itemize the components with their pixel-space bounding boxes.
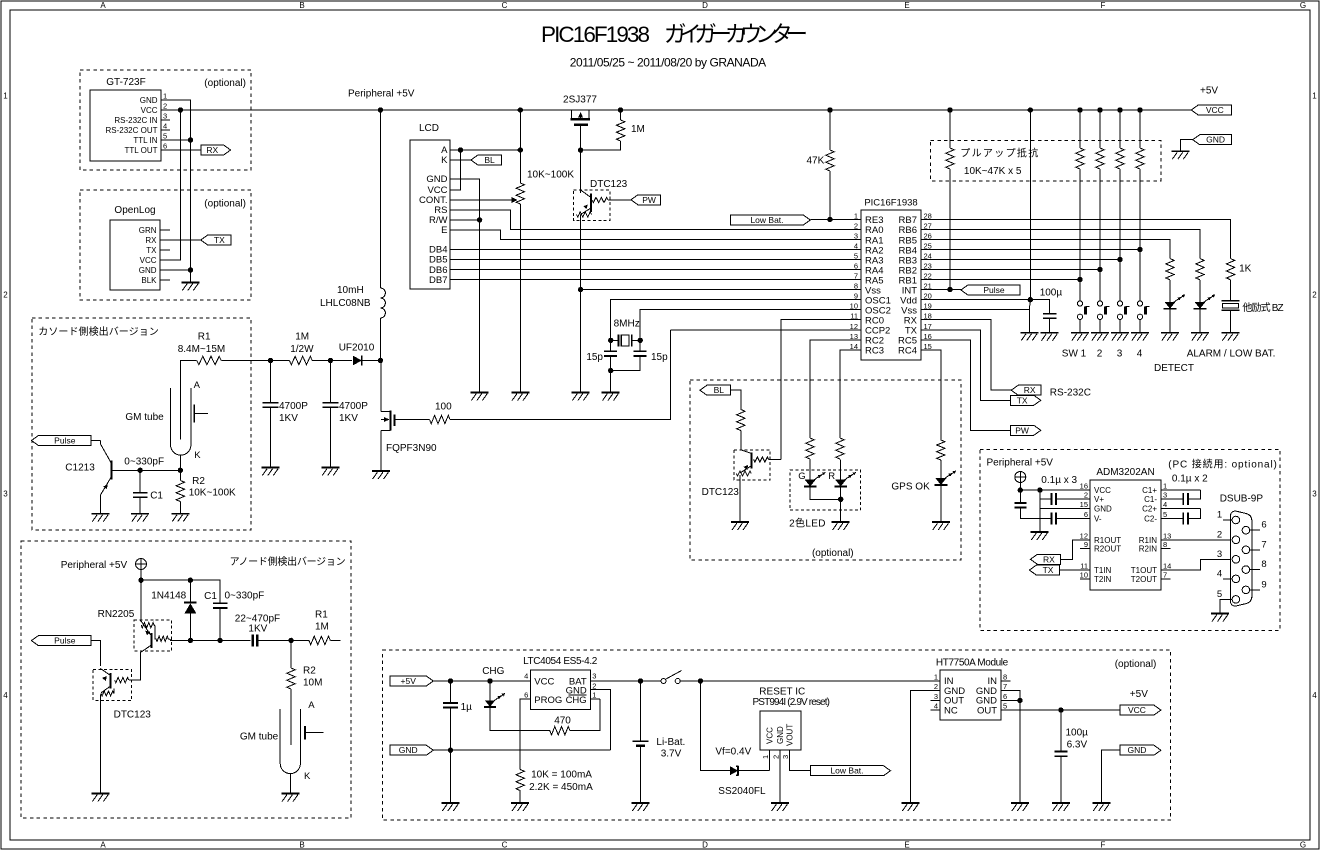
svg-text:3: 3 (163, 112, 167, 121)
svg-text:DETECT: DETECT (1154, 363, 1194, 374)
wire DTC123 base to RC0 (770, 459, 781, 461)
svg-text:K: K (194, 450, 201, 461)
svg-text:4: 4 (854, 242, 858, 251)
svg-text:2011/05/25 ~ 2011/08/20 by GRA: 2011/05/25 ~ 2011/08/20 by GRANADA (570, 56, 766, 70)
svg-text:(optional): (optional) (204, 199, 246, 210)
svg-text:4: 4 (163, 122, 167, 131)
svg-text:RS-232C IN: RS-232C IN (114, 116, 157, 125)
signal flag Low Bat. (to RE3) (731, 215, 811, 225)
svg-text:100: 100 (435, 402, 452, 413)
wire RE3 pin1 (810, 218, 861, 220)
ground (GND flag) (1172, 150, 1190, 152)
wire ADM VCC pin16 (1020, 489, 1090, 491)
ground buzzer (1222, 332, 1240, 334)
svg-text:A: A (100, 840, 106, 849)
wire RX pin18 (921, 320, 1011, 391)
svg-text:TTL OUT: TTL OUT (124, 146, 157, 155)
svg-text:F: F (1101, 840, 1106, 849)
wire PST994I pin1 VCC (769, 750, 771, 771)
svg-text:CHG: CHG (566, 695, 587, 706)
ground HT7750 GND (902, 802, 920, 804)
svg-text:(optional): (optional) (812, 548, 854, 559)
svg-text:VCC: VCC (534, 676, 554, 687)
svg-text:10K~47K x 5: 10K~47K x 5 (964, 166, 1022, 177)
junction diode node (188, 638, 193, 643)
svg-text:6: 6 (1084, 510, 1088, 519)
svg-text:RN2205: RN2205 (98, 609, 135, 620)
wire HT7750 pin4 stub (931, 709, 941, 711)
LED LOW BAT no2 (1194, 302, 1205, 309)
svg-text:8.4M~15M: 8.4M~15M (178, 344, 226, 355)
wire GT-723F pin6 TTL OUT to RX (161, 149, 201, 151)
svg-text:TX: TX (1017, 395, 1028, 405)
svg-text:1M: 1M (295, 332, 309, 343)
wire LCD DB5 to PIC RA3 (450, 259, 861, 261)
ground Vss pin19 (1020, 332, 1038, 334)
power flag VCC (1191, 105, 1231, 115)
svg-text:100µ: 100µ (1066, 728, 1089, 739)
svg-text:1: 1 (761, 755, 770, 759)
wire +5V rail (161, 109, 1191, 111)
wire LCD E to PIC RA1 (450, 230, 861, 240)
svg-text:10mH: 10mH (337, 285, 364, 296)
svg-text:100µ: 100µ (1040, 288, 1063, 299)
svg-text:R1: R1 (198, 332, 211, 343)
wire T1OUT to DSUB 3 (1161, 559, 1231, 570)
svg-text:A: A (194, 380, 201, 391)
signal flag TX (ADM) (1029, 565, 1059, 575)
ground PST994I (771, 802, 789, 804)
wire OpenLog RX to TX flag (160, 239, 201, 241)
svg-text:VCC: VCC (140, 256, 157, 265)
power supply optional enclosure (382, 650, 1170, 820)
inductor 10mH LHLC08NB (379, 110, 381, 288)
signal flag Low Bat. (from reset IC) (811, 766, 891, 776)
wire R2IN stub (1161, 548, 1171, 550)
svg-text:GND: GND (1094, 505, 1112, 514)
signal flag BL (LED box) (700, 385, 731, 395)
svg-text:3: 3 (934, 692, 938, 701)
wire DSUB 5 to ground (1220, 599, 1232, 613)
svg-text:1N4148: 1N4148 (151, 591, 186, 602)
wire RB7 pin28 to buzzer (921, 219, 1231, 258)
svg-text:GRN: GRN (139, 226, 157, 235)
wire RB3 pin24 to SW3 (921, 259, 1120, 261)
ground 4700P no1 (262, 467, 280, 469)
ground C1 (131, 513, 149, 515)
wire switch to HT7750 IN (680, 680, 940, 682)
ground Vss (572, 392, 590, 394)
signal flag RX (RS-232C) (1011, 385, 1041, 395)
svg-text:10: 10 (1080, 570, 1088, 579)
svg-text:5: 5 (1163, 510, 1167, 519)
svg-text:ADM3202AN: ADM3202AN (1096, 467, 1154, 478)
wire OpenLog TX stub (160, 249, 170, 251)
svg-text:1KV: 1KV (339, 413, 358, 424)
ground 100u (1041, 332, 1059, 334)
svg-text:4: 4 (524, 672, 528, 681)
svg-text:R1: R1 (315, 610, 328, 621)
wire CCP2 pin12 (671, 329, 862, 331)
svg-text:3: 3 (1217, 549, 1222, 560)
svg-text:6: 6 (1261, 520, 1266, 531)
svg-text:E: E (904, 1, 909, 10)
wire Vdd to rail (1029, 110, 1031, 300)
ground GND flag output (1092, 802, 1110, 804)
svg-text:6: 6 (524, 691, 528, 700)
svg-text:16: 16 (1080, 482, 1088, 491)
svg-text:5: 5 (854, 252, 858, 261)
ground DTC123 emitter (92, 793, 110, 795)
wire GND flag output (1101, 750, 1120, 803)
wire R1 left to GM tube anode (180, 361, 196, 440)
svg-text:D: D (702, 840, 708, 849)
ground battery (632, 802, 650, 804)
svg-text:2色LED: 2色LED (789, 517, 825, 530)
svg-text:VCC: VCC (766, 727, 775, 744)
resistor PROG 10K/2.2K (516, 770, 524, 791)
capacitor 0.1u C1 (1161, 489, 1201, 491)
switch SW2 (1097, 301, 1102, 306)
ground PROG resistor (511, 802, 529, 804)
svg-text:GND: GND (1128, 745, 1147, 755)
junction 100u output cap (1058, 707, 1063, 712)
svg-text:TX: TX (146, 246, 157, 255)
wire LCD K to BL (450, 159, 471, 161)
ground LED2 (1191, 332, 1209, 334)
junction C1 node (137, 468, 142, 473)
wire RB4 pin25 to SW4 (921, 249, 1140, 251)
svg-text:3: 3 (1163, 491, 1167, 500)
svg-text:DB7: DB7 (429, 275, 447, 286)
svg-text:(optional): (optional) (1115, 659, 1157, 670)
junction 4700P no2 (328, 358, 333, 363)
svg-text:0.1µ x 2: 0.1µ x 2 (1172, 474, 1208, 485)
svg-text:2: 2 (934, 682, 938, 691)
svg-text:R1IN: R1IN (1139, 536, 1157, 545)
svg-text:R2OUT: R2OUT (1094, 545, 1121, 554)
signal flag PW (631, 195, 660, 205)
svg-text:他励式 BZ: 他励式 BZ (1242, 301, 1283, 314)
ground ADM (1031, 531, 1049, 533)
ground LED1 (1161, 332, 1179, 334)
svg-text:RX: RX (1024, 385, 1036, 395)
junction Vdd node (1028, 297, 1033, 302)
svg-text:2: 2 (3, 291, 8, 300)
svg-text:Low Bat.: Low Bat. (830, 766, 863, 776)
svg-text:DTC123: DTC123 (590, 179, 628, 190)
svg-text:2: 2 (1084, 491, 1088, 500)
cathode-side detector enclosure (32, 318, 251, 530)
wire RC4 pin15 to GPS OK (921, 350, 941, 440)
svg-text:7: 7 (1163, 570, 1167, 579)
svg-text:0~330pF: 0~330pF (225, 591, 265, 602)
junction two-color LED cathode (838, 497, 843, 502)
wire +5V node to C1 (141, 580, 220, 603)
GT-723F module U2 (90, 90, 161, 161)
signal flag PW (from RC5) (1010, 425, 1041, 435)
svg-text:C: C (502, 840, 508, 849)
capacitor 4700P 1KV no2 (329, 361, 331, 403)
junction 4700P no1 (268, 358, 273, 363)
wire PROG pin6 (520, 699, 530, 770)
svg-text:1/2W: 1/2W (290, 344, 314, 355)
svg-text:9: 9 (1261, 579, 1266, 590)
svg-text:DTC123: DTC123 (114, 710, 152, 721)
OpenLog module U3 (110, 220, 160, 290)
anode-side detector enclosure (21, 541, 351, 818)
wire RN2205 base node (170, 639, 250, 641)
svg-text:BL: BL (714, 385, 725, 395)
junction dots on +5V rail (378, 107, 383, 112)
svg-text:GT-723F: GT-723F (106, 77, 145, 88)
wire cathode node (112, 469, 181, 471)
svg-text:GND: GND (776, 726, 785, 744)
wire GT-723F pin5 TTL IN (161, 139, 191, 141)
resistor GPS LED (937, 440, 945, 460)
wire ADM GND pin15 (1040, 508, 1090, 510)
svg-text:PST994I (2.9V reset): PST994I (2.9V reset) (753, 697, 831, 708)
svg-text:4700P: 4700P (279, 401, 308, 412)
junction CHG LED (487, 678, 492, 683)
signal flag Pulse (anode version) (31, 636, 91, 646)
svg-text:HT7750A Module: HT7750A Module (936, 658, 1009, 669)
wire Pulse to C1213 collector (91, 440, 100, 442)
svg-text:BL: BL (484, 155, 495, 165)
wire PST994I pin2 GND (779, 750, 781, 803)
svg-text:1: 1 (1217, 510, 1222, 521)
wire RB1 pin22 to SW1 (921, 279, 1080, 281)
svg-text:8: 8 (854, 282, 858, 291)
wire crystal ground (610, 371, 612, 393)
wire GND flag to ground (1181, 140, 1193, 151)
svg-text:K: K (441, 155, 448, 166)
wire RB6 pin27 to LED2 (921, 229, 1200, 258)
capacitor 0.1u V- (1040, 518, 1052, 520)
svg-text:C1+: C1+ (1142, 486, 1157, 495)
wire VCC branch down to OpenLog (160, 110, 180, 260)
power flag +5V (charger in) (390, 676, 433, 686)
svg-text:R2: R2 (303, 666, 316, 677)
svg-text:UF2010: UF2010 (339, 343, 375, 354)
junction GM tube cathode node (178, 468, 183, 473)
GM tube no2 (280, 709, 300, 774)
svg-text:6: 6 (854, 262, 858, 271)
signal flag Pulse (cathode version) (31, 436, 91, 446)
ground HT7750 output (1011, 802, 1029, 804)
wire LCD DB7 to PIC RA5 (450, 279, 861, 281)
wire Vss pin19 to ground (921, 310, 1029, 333)
potentiometer 10K~100K contrast (519, 110, 521, 183)
svg-text:VOUT: VOUT (786, 724, 795, 746)
svg-text:PIC16F1938: PIC16F1938 (541, 22, 650, 47)
two-color LED enclosure (790, 470, 861, 510)
svg-text:1KV: 1KV (248, 624, 267, 635)
LED R (835, 480, 846, 487)
svg-text:1M: 1M (315, 622, 329, 633)
svg-text:7: 7 (1261, 539, 1266, 550)
wire OSC2 to crystal (640, 310, 861, 341)
wire R1 to 1M (221, 360, 289, 362)
wire LCD GND down to ground (450, 179, 480, 393)
svg-text:Peripheral +5V: Peripheral +5V (61, 560, 128, 571)
svg-text:0.1µ x 3: 0.1µ x 3 (1041, 475, 1077, 486)
svg-text:E: E (441, 225, 447, 236)
wire OpenLog GRN stub (160, 229, 170, 231)
svg-text:D: D (702, 1, 708, 10)
resistor 1M gate pull-up (620, 110, 622, 120)
signal flag TX (RS-232C) (1011, 395, 1041, 405)
wire 1M to UF2010 (312, 360, 352, 362)
wire OpenLog BLK stub (160, 279, 170, 281)
svg-text:1M: 1M (631, 124, 645, 135)
svg-text:Li-Bat.: Li-Bat. (656, 737, 685, 748)
svg-text:RS-232C OUT: RS-232C OUT (105, 126, 157, 135)
LCD module (410, 140, 450, 289)
transistor DTC123 (power control) Q2 (574, 190, 611, 220)
svg-text:GND: GND (1206, 135, 1225, 145)
junction 15p ground node (608, 368, 613, 373)
signal flag BL (backlight) (471, 155, 501, 165)
svg-text:Pulse: Pulse (983, 285, 1005, 295)
wire OSC1 to crystal (611, 300, 861, 341)
svg-text:LCD: LCD (419, 123, 439, 134)
svg-text:13: 13 (1163, 531, 1171, 540)
svg-text:TTL IN: TTL IN (133, 136, 157, 145)
IC LTC4054 U5 (530, 670, 590, 710)
junction 47K on RE3 (827, 217, 832, 222)
wire LCD VCC branch (450, 150, 461, 190)
svg-text:2: 2 (1217, 529, 1222, 540)
svg-text:C2-: C2- (1144, 515, 1157, 524)
svg-text:Vf=0.4V: Vf=0.4V (715, 747, 751, 758)
svg-text:3: 3 (781, 755, 790, 759)
svg-text:4: 4 (1217, 568, 1222, 579)
junction battery + (638, 678, 643, 683)
svg-text:F: F (1101, 1, 1106, 10)
wire PIC Vss pin8 (581, 289, 861, 291)
GM tube no1 (171, 388, 191, 455)
svg-text:3: 3 (1312, 490, 1317, 499)
wire LTC BAT pin3 (591, 680, 661, 682)
svg-text:LTC4054 ES5-4.2: LTC4054 ES5-4.2 (523, 656, 598, 667)
buzzer BZ (externally driven) (1222, 300, 1240, 302)
wire UF2010 to node (362, 360, 380, 362)
svg-text:5: 5 (163, 132, 167, 141)
wire RB5 pin26 to LED1 (921, 240, 1170, 259)
junction anode +5V node (138, 578, 143, 583)
wire T2OUT stub (1161, 578, 1171, 580)
svg-text:+5V: +5V (1200, 86, 1218, 97)
svg-text:GND: GND (426, 174, 447, 185)
svg-text:470: 470 (554, 716, 571, 727)
ground GM tube no2 (281, 793, 299, 795)
switch SW1 (1077, 301, 1082, 306)
svg-text:+5V: +5V (1130, 689, 1148, 700)
wire RC3 pin14 (840, 350, 861, 438)
svg-text:OUT: OUT (977, 705, 997, 716)
power flag VCC (output) (1120, 705, 1161, 715)
wire HT7750 pin7 GND (1001, 691, 1020, 701)
junction crystal left (608, 338, 613, 343)
svg-text:1: 1 (592, 691, 596, 700)
wire Vdd pin20 (921, 299, 1030, 301)
resistor backlight (737, 410, 745, 431)
junction TTL IN (188, 137, 193, 142)
svg-text:1µ: 1µ (461, 702, 473, 713)
wire R1IN to DSUB 2 (1161, 539, 1231, 541)
resistor pull-up INT (949, 110, 951, 148)
transistor FQPF3N90 N-MOSFET Q3 (380, 361, 382, 412)
svg-text:1: 1 (163, 92, 167, 101)
svg-text:7: 7 (1003, 682, 1007, 691)
signal flag Pulse (to INT) (961, 285, 1020, 295)
IC ADM3202AN U4 (1090, 480, 1161, 590)
svg-text:1: 1 (934, 673, 938, 682)
wire LCD R/W (450, 219, 480, 221)
svg-text:2SJ377: 2SJ377 (563, 95, 597, 106)
signal flag TX (to OpenLog) (201, 235, 231, 245)
ground DTC123 backlight (731, 521, 749, 523)
wire reset branch down (700, 681, 729, 771)
pull-up resistor enclosure (931, 141, 1161, 181)
svg-text:GM tube: GM tube (125, 412, 164, 423)
svg-text:G: G (798, 471, 805, 482)
resistor LED R (836, 438, 844, 459)
wire GT-723F pin3 stub (161, 119, 170, 121)
svg-text:5: 5 (1003, 702, 1007, 711)
resistor LED2 (LOW BAT) (1196, 259, 1204, 280)
junction 1u/GND rail (448, 748, 453, 753)
svg-text:VCC: VCC (1094, 486, 1111, 495)
svg-text:T2OUT: T2OUT (1131, 575, 1157, 584)
LED CHG (489, 681, 491, 701)
svg-text:R2: R2 (192, 476, 205, 487)
svg-text:8: 8 (1003, 673, 1007, 682)
svg-text:DTC123: DTC123 (702, 487, 740, 498)
svg-text:プルアップ抵抗: プルアップ抵抗 (960, 147, 1038, 160)
svg-text:7: 7 (854, 272, 858, 281)
svg-text:6.3V: 6.3V (1067, 740, 1088, 751)
svg-text:TX: TX (214, 235, 225, 245)
svg-text:A: A (308, 700, 315, 711)
LED G (805, 480, 816, 487)
svg-text:(optional): (optional) (204, 78, 246, 89)
svg-text:5: 5 (1217, 589, 1222, 600)
microcontroller PIC16F1938 U1 (861, 210, 921, 360)
resistor pull-up SW3 (1119, 110, 1121, 148)
resistor LED1 (ALARM) (1166, 259, 1174, 280)
svg-text:4: 4 (1312, 691, 1317, 700)
wire T2IN stub (1080, 578, 1090, 580)
svg-text:G: G (1300, 1, 1306, 10)
svg-text:アノード側検出バージョン: アノード側検出バージョン (230, 555, 346, 568)
junction LCD R/W on GND line (477, 217, 482, 222)
svg-text:Pulse: Pulse (54, 436, 76, 446)
svg-text:3: 3 (854, 231, 858, 240)
wire LCD DB4 to PIC RA2 (450, 249, 861, 251)
svg-text:4700P: 4700P (339, 401, 368, 412)
svg-text:T2IN: T2IN (1094, 575, 1112, 584)
svg-text:Peripheral +5V: Peripheral +5V (348, 89, 415, 100)
wire TX pin17 (921, 330, 1011, 401)
svg-text:47K: 47K (807, 156, 825, 167)
svg-text:10K~100K: 10K~100K (527, 170, 574, 181)
svg-text:RC4: RC4 (898, 346, 917, 357)
wire HT7750 pin6 GND (1001, 699, 1020, 701)
signal flag RX (ADM) (1030, 554, 1060, 564)
svg-text:1K: 1K (1239, 264, 1252, 275)
